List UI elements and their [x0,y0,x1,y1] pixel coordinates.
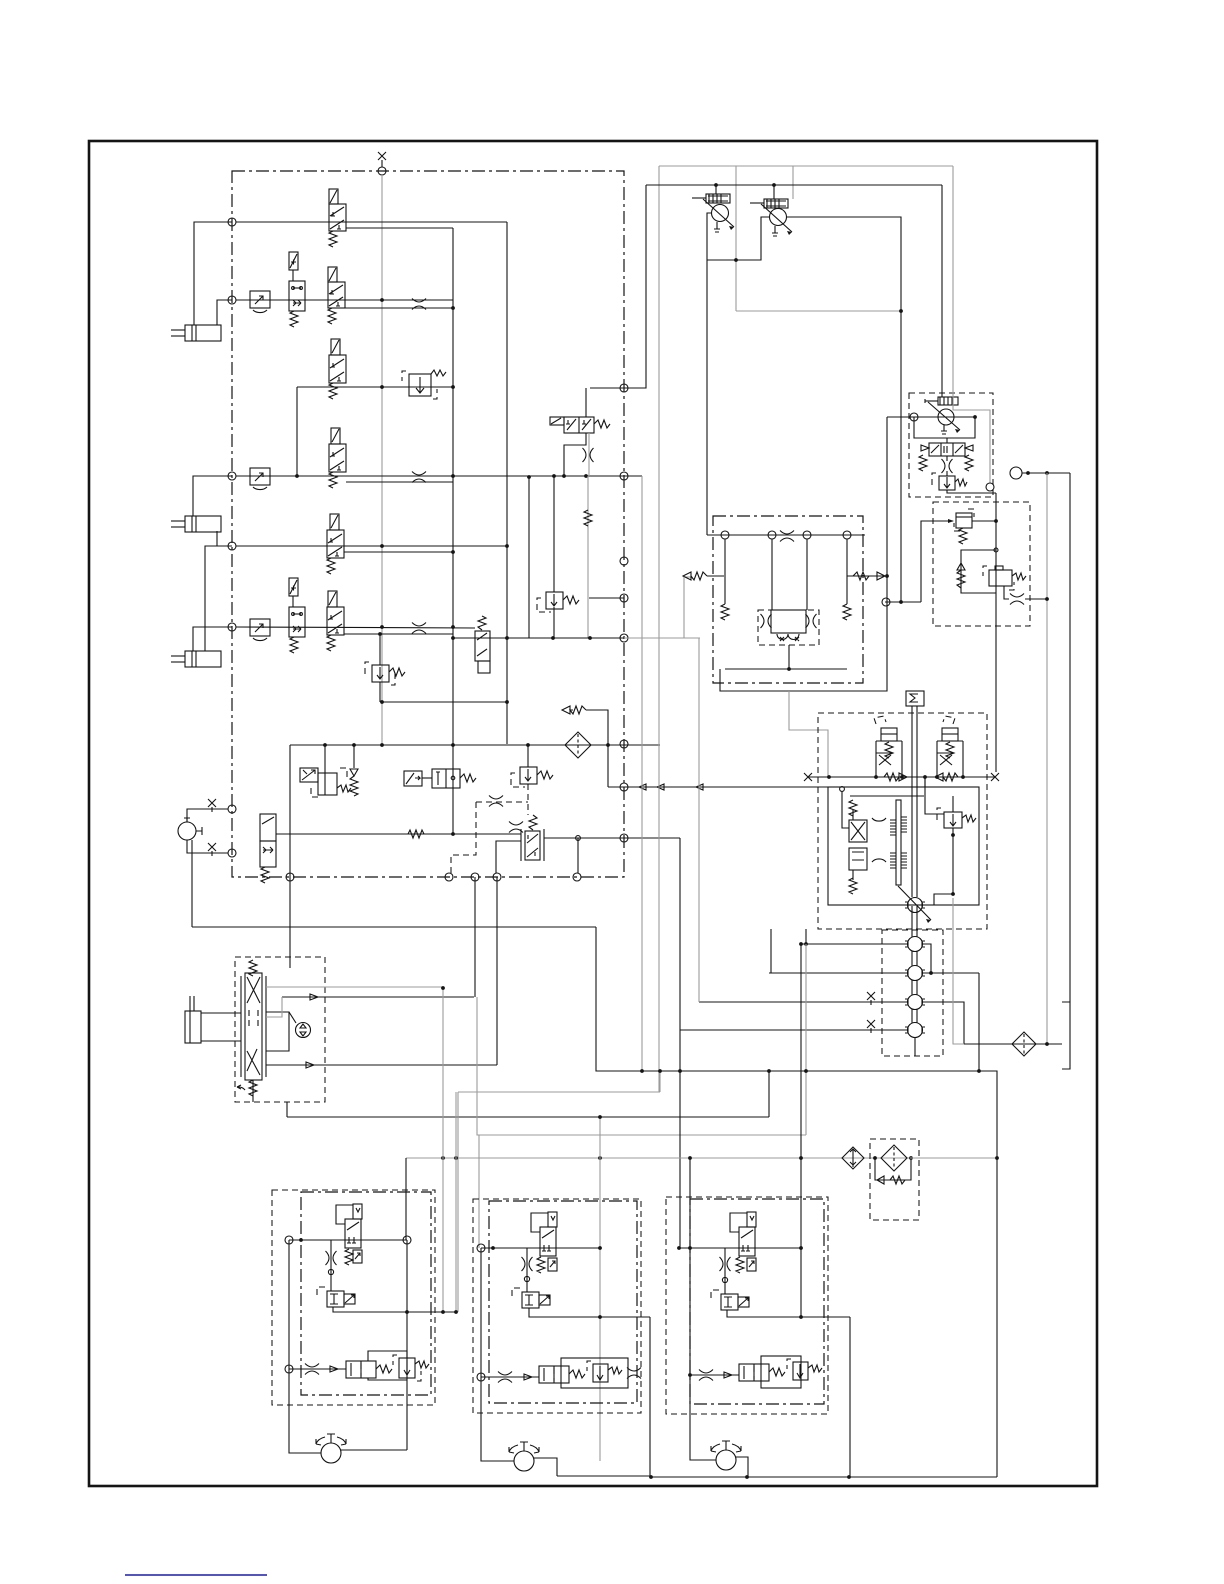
arrow on feed [524,1374,532,1380]
oil cooler filter [1012,1032,1036,1056]
spring below V4 [327,635,335,651]
valve A ports [874,775,878,779]
gear housing arcs [872,818,886,862]
dot on collect [787,667,791,671]
swing drain stub A [770,929,772,973]
check-throttle CT3 [250,619,270,641]
riser to cylinder C1 head end [217,300,232,325]
wire row1 upper [236,221,507,223]
bypass check spring [890,1176,905,1184]
gray pump case line [953,166,990,483]
group3 drain wire [727,1310,850,1317]
spring right of RM [537,771,553,779]
spring below SV2 [290,637,298,653]
PRV1 loop [707,213,711,535]
frame border [89,141,1097,1486]
throttle on feed [305,1364,319,1375]
steering feed riser [289,877,291,968]
plug X upper [208,799,216,807]
RB outlet [946,456,948,461]
valve B dashed cap [943,716,955,724]
port risers to pilot block [474,877,476,997]
right make-up check [847,575,887,577]
proportional relief PRV2 [750,199,792,236]
spring below V2 [328,308,336,324]
small port circle [524,1276,529,1281]
group3 inner enclosure [690,1199,824,1404]
feed riser continue to fan group [679,1030,681,1248]
junction dots row3 [451,474,455,478]
spring below SV1 [290,311,298,327]
feed dot [688,1373,692,1377]
R2 right line [931,972,979,974]
throttle on row2 [412,299,426,310]
steering outlet lower [266,1064,497,1066]
unload valve stem [585,388,587,417]
valve A dashed cap [874,716,886,724]
AV outlet wire [544,837,680,839]
GR3b dashed bits [787,1359,791,1369]
riser segment 1240-1380 [406,1240,408,1380]
spring right GR3b [808,1365,822,1372]
travel feed long wire [287,1116,769,1118]
dots on bypass wire [451,636,455,640]
branch riser x529 [528,477,530,638]
GM3 loop [761,1356,801,1388]
solenoid valve SV2 [289,578,305,637]
relief valve RM stem [527,745,529,767]
R3 left line [699,1001,907,1003]
gray loop bottom [736,310,901,312]
pump regulator feed riser [941,185,943,397]
plug X on R4 line [867,1020,875,1028]
spring on right riser [843,604,851,620]
pump GP3 [711,1441,741,1470]
regulator block RB [921,443,973,456]
pilot reducing valve V2b [329,339,346,383]
filter outlet gray [910,1157,997,1159]
K2 dashed bits [311,768,347,797]
steering cylinder [185,996,201,1043]
fan relief FR1 [327,1291,355,1307]
steering spring top [249,960,257,976]
FR1 dashed enclosure [317,1287,325,1298]
stem to relief RP [946,471,948,476]
steering spring bottom [249,1080,257,1096]
dots on PC wire [1026,471,1030,475]
case drain gray A [641,476,643,1071]
riser to cylinder C1 rod end [194,222,232,325]
PRV1 loop bottom [707,217,769,260]
filter ports [873,1156,877,1160]
pump3 outlet [736,1457,748,1477]
spring right of RP [955,479,967,486]
FM1 loop [368,1351,407,1361]
return filter element [881,1145,907,1171]
joint shaft [911,906,913,1037]
reducing valve RN [956,513,972,528]
dots on make-up line [827,775,831,779]
RO check loop top [961,550,996,593]
riser R2 to tank area [978,973,980,1071]
PRV1 stem [715,185,717,194]
dot on suction corner [885,574,889,578]
FR1b dashed bits [393,1355,421,1381]
swing brake valve [849,810,867,880]
variable pump VP [925,397,960,434]
R3 right line [922,1002,964,1044]
tank return standpipe [1069,473,1071,1002]
swing relief stem [952,796,954,812]
dots on group2 drain [598,1315,602,1319]
swing case drain gray [953,898,964,1044]
gray riser drain [659,1071,661,1092]
relief valve RJ stem [553,476,555,592]
RO drain to case line [1025,598,1048,600]
dots on group1 drain [405,1310,409,1314]
R4 left line [680,1029,907,1031]
RJ drain stem [553,607,555,638]
group1 pump riser [289,1240,321,1453]
small port circle [328,1269,333,1274]
plate risers [724,539,726,604]
top gray return header [659,165,953,167]
pilot reducing valve V5 [327,514,344,558]
unloading valve UV [550,417,594,433]
metering pump piping [266,1012,289,1051]
fan valve group enclosure (dashed) [272,1190,435,1405]
relief GR3 [721,1294,749,1310]
GR2b dashed bits [587,1361,591,1371]
K3 spring right [460,774,476,782]
top black supply header [646,184,942,186]
metering pump circle [296,1023,311,1038]
RN dashed enclosure [954,509,974,531]
valve A variable throttle [876,753,892,765]
dots on manifold [323,743,327,747]
rotary port R1 [905,937,925,952]
sequence valve SQ [475,631,490,673]
RB stem [946,438,948,443]
pilot supply wire row5 [276,833,453,835]
summation box [906,691,924,706]
group2 drain drop [557,1317,650,1476]
throttle on RO drain [1010,594,1024,605]
arrow on feed [724,1372,732,1378]
rotary port R2 [905,966,925,981]
spring below V1 [329,231,337,247]
RW dashed enclosure [365,662,395,685]
relief valve R387 [409,374,431,396]
tank symbol [1062,1002,1070,1069]
swing pilot wire [608,786,828,788]
spring right GM3 [769,1368,785,1376]
bottom drain header [651,1476,997,1478]
group3 wire ports [677,1246,681,1250]
small port circle [722,1277,727,1282]
make-up check right glyph [884,773,899,781]
steering outlet mid [282,996,474,998]
spring below-left GV2 [537,1257,545,1273]
sigma glyph [910,694,918,702]
pilot reducing valve V2 [328,267,345,308]
plug X lower [208,843,216,851]
pilot return gray C [698,638,700,1002]
spring below SV3 [261,867,269,883]
swing relief valve [944,812,962,828]
dots on drain [951,833,955,837]
wire row2 upper [236,299,453,301]
RP drain [947,490,996,493]
rotary port R4 [905,1023,925,1038]
wire row3b [236,545,507,547]
pump shaft stem [788,645,790,669]
arrow on lower line [306,1062,314,1068]
group1 drain wire [333,1307,456,1312]
pilot return to filter [406,1157,910,1159]
spring below V3 [329,472,337,488]
pump suction wire [887,416,975,418]
swing relief dashed enclosure [937,808,941,821]
throttle below FV1 [330,1240,332,1291]
spring right of RJ [563,596,579,604]
make-up check left glyph [943,773,958,781]
swing make-up line [808,776,995,778]
return manifold wire [290,744,660,746]
K2 spring right [337,785,351,792]
bypass spring branch [586,710,608,787]
UV drain elbow [564,433,586,476]
spring right of swing relief [962,815,976,822]
pilot reducing valve V1 [329,189,346,231]
dots on filter line [441,1156,445,1160]
rotary joint enclosure (dashed) [882,930,943,1056]
dot at drain top [441,986,445,990]
solenoid valve SV1 [289,252,305,311]
spring right FM1 [376,1365,392,1373]
spring on left riser [721,604,729,620]
relief valve RW [372,665,389,682]
steering spool housing [241,973,266,1080]
reducing valve RN feed [921,521,953,602]
spring right of RW [389,668,405,676]
small circle on standpipe [994,548,998,552]
throttle on row3 [412,472,426,483]
solenoid valve GV2 [531,1212,557,1256]
pilot pump PP [178,818,202,840]
arrow on feed [330,1366,338,1372]
pilot line dashed [476,801,528,803]
pilot relief RP [939,476,955,490]
dots on bottom header [649,1475,653,1479]
wire to RN loop [885,601,921,603]
check spring [957,570,965,588]
RM drain dashed [527,784,529,815]
port circles right edge [620,384,628,392]
relief valve RW stem [379,634,381,665]
pilot reducing valve V3 [329,428,346,472]
cylinder C3 [171,651,221,667]
dots on branch [527,475,531,479]
group drain gray B [455,1092,457,1312]
RO dashed enclosure [983,566,1014,590]
pilot pump wire lower [187,840,228,853]
dots row3b [451,550,455,554]
rotary port R3 [905,995,925,1010]
group3 supply wire [679,1247,801,1249]
group3 return drop [800,944,802,1317]
group2 feed link [478,1135,480,1248]
check valve arrow [957,563,965,570]
throttle on feed [699,1370,713,1381]
cylinder C3 feed lines [193,627,232,651]
main control valve MV [521,829,544,861]
spring right GM2 [569,1370,585,1378]
group3 lower feed wire [690,1374,739,1376]
brake piping [842,791,849,828]
junction dots row2 [380,298,384,302]
pilot dashed drop [451,802,476,873]
RB feed lines [914,417,975,438]
RW drain [379,682,381,702]
aux valve group2 enclosure (dashed) [473,1199,641,1413]
group1 lower feed wire [289,1368,346,1370]
arrow box below GV3 [747,1258,756,1271]
dot at R1 tap [799,942,803,946]
main pump unit outer box [720,417,887,691]
solenoid reducing valve K2 [300,745,337,795]
throttle on row4 [412,623,426,634]
group2 lower feed wire [481,1376,539,1378]
wire row4 lower [344,633,453,635]
group2 inner enclosure [489,1201,637,1403]
GR3 dashed enclosure [711,1290,719,1301]
throttle on pilot line [489,796,503,807]
dots row387 [295,474,299,478]
R4 bottom stub [914,1037,916,1056]
pump top plate [707,534,865,536]
relief drain riser [406,1380,408,1450]
plugs on make-up line [804,773,812,781]
RM dashed enclosure [511,773,525,787]
throttle top-left MV [509,822,523,833]
pump GP2 [509,1442,539,1471]
row387 left drop [296,387,298,476]
steering outlet upper gray [266,986,443,988]
drain link wire [589,597,624,599]
spring below V2b [329,383,337,399]
spring below RN [959,528,967,544]
left check spring glyph [691,572,707,580]
pilot gear pump assembly enclosure [909,393,993,497]
pump outlet wire [341,1449,407,1451]
steering drain [252,1080,254,1102]
feed riser to R4 [679,838,681,1030]
R1 left line [801,943,907,945]
branch wire y702 [382,701,507,703]
wire row1 lower [346,227,453,229]
main riser A [452,228,454,835]
case drain standpipe [995,493,997,772]
steering return riser [286,1102,288,1117]
relief GR2b [593,1364,608,1382]
return to tank line [964,1043,1062,1045]
UV gray drain [588,433,590,476]
gray elbow [266,997,282,1017]
swing drain stub B [805,929,807,944]
solenoid valve K3 [404,769,460,788]
group3 pump riser [690,1248,716,1460]
throttle below RB [942,459,953,473]
plug X on R3 line [867,992,875,1000]
group drain gray A [442,988,444,1312]
wire row387 [297,386,453,388]
brake pilot port [840,787,845,792]
port circles left edge [228,218,236,226]
proportional relief PRV1 [692,194,734,232]
gray case drain right [1046,473,1048,1044]
lever arrowhead [926,919,931,923]
solenoid valve GV3 [730,1212,756,1256]
return filter RF [565,732,591,758]
RJ dashed enclosure [537,598,551,612]
main pump enclosure (dash-dot) [713,516,863,683]
bottom return line [720,690,887,692]
PRV2 outlet loop [787,217,901,602]
check spring glyph [570,706,586,714]
valve B variable throttle [937,753,953,765]
steering arrow bottom [237,1085,245,1090]
drop into group1 [405,1158,407,1240]
PC outlet wire [1022,472,1070,474]
unload valve feed [590,185,646,388]
make-up drops [924,777,926,787]
node X on top edge [378,152,386,160]
dot on row4 [378,632,382,636]
solenoid valve SV3 [260,814,276,867]
arrow box below FV1 [353,1250,362,1263]
pilot supply gray bus [381,175,383,745]
fan relief FR1b [399,1358,415,1378]
port circle left [882,598,890,606]
pilot valve block enclosure (dash-dot) [232,171,624,877]
main riser B [506,222,508,744]
cylinder C1 [171,325,221,341]
dot on feed [451,832,455,836]
relief GR2 [522,1292,550,1308]
motor valve GM2 [539,1366,569,1383]
spring right of UV [594,420,610,428]
RN outlet [972,520,996,522]
GM2 loop [561,1358,628,1388]
flow arrows on pilot wire [639,784,703,790]
return filter box (dashed) [870,1139,919,1220]
pilot reducing valve V4 [327,591,344,635]
group2 supply wire [481,1247,600,1249]
right check spring glyph [853,572,869,580]
anti-cavitation check [350,745,358,796]
swing drive enclosure (dashed) [818,713,987,929]
plate port circles [721,531,729,539]
pump drain gray [789,691,828,776]
page link underline [125,1574,267,1576]
arrow box below GV2 [548,1258,557,1271]
feed port circle [285,1365,293,1373]
spring right GR2b [608,1367,622,1374]
swing drive inner box [828,787,979,905]
spring below-left GV3 [736,1257,744,1273]
gray riser to R1 [805,944,807,1135]
